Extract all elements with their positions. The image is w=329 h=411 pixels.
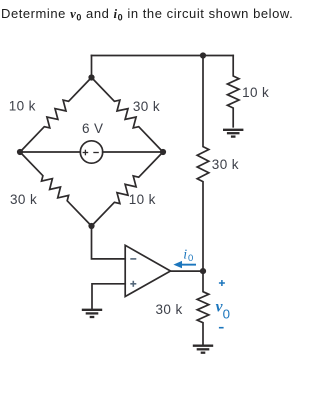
svg-text:10 k: 10 k [129,192,156,207]
resistor R2 30 k (right vertical) [197,56,209,272]
svg-text:30 k: 30 k [212,157,239,172]
node bridge left [17,149,23,155]
node bridge top [88,74,94,80]
source polarity marks + and - inside 6 V [83,150,99,156]
svg-text:10 k: 10 k [9,99,36,114]
svg-text:30 k: 30 k [10,192,37,207]
wire op-amp output to node [171,270,204,272]
ground below output resistor [193,346,213,353]
current arrow i0 [173,261,196,268]
wire top rail [92,55,234,57]
label v0 minus [219,327,224,329]
wire bridge bottom node to op-amp inverting input [92,226,126,259]
node op-amp output junction [200,268,206,274]
wire bridge top node up to top rail [91,56,93,78]
svg-text:30 k: 30 k [156,302,183,317]
wire noninverting input to ground [92,284,125,310]
svg-text:0: 0 [223,306,230,321]
resistor R7 30 k (output load) [197,271,209,345]
node bridge bottom [88,223,94,229]
svg-text:Determine v0 and i0 in the cir: Determine v0 and i0 in the circuit shown… [1,6,293,23]
ground under 10 k branch [223,130,243,137]
resistor R6 10 k (bridge bottom-right) [92,152,164,226]
svg-text:i: i [183,248,187,263]
label v0 plus [219,280,225,286]
ground at op-amp noninverting input [82,310,102,317]
svg-text:30 k: 30 k [133,99,160,114]
node bridge right [160,149,166,155]
svg-text:0: 0 [188,253,193,264]
svg-text:10 k: 10 k [242,85,269,100]
wire left node to source [20,151,80,153]
wire source to right node [103,151,163,153]
op-amp U1 triangle [125,245,170,296]
node top rail junction [200,52,206,58]
resistor R5 30 k (bridge bottom-left) [20,152,92,226]
svg-text:6 V: 6 V [82,121,103,136]
resistor R4 30 k (bridge top-right) [92,78,164,153]
resistor R3 10 k (bridge top-left) [20,78,92,153]
resistor R1 10 k (top right branch) [227,56,239,127]
op-amp input polarity marks [130,259,136,287]
voltage source V1 6 V (circle) [80,141,102,163]
